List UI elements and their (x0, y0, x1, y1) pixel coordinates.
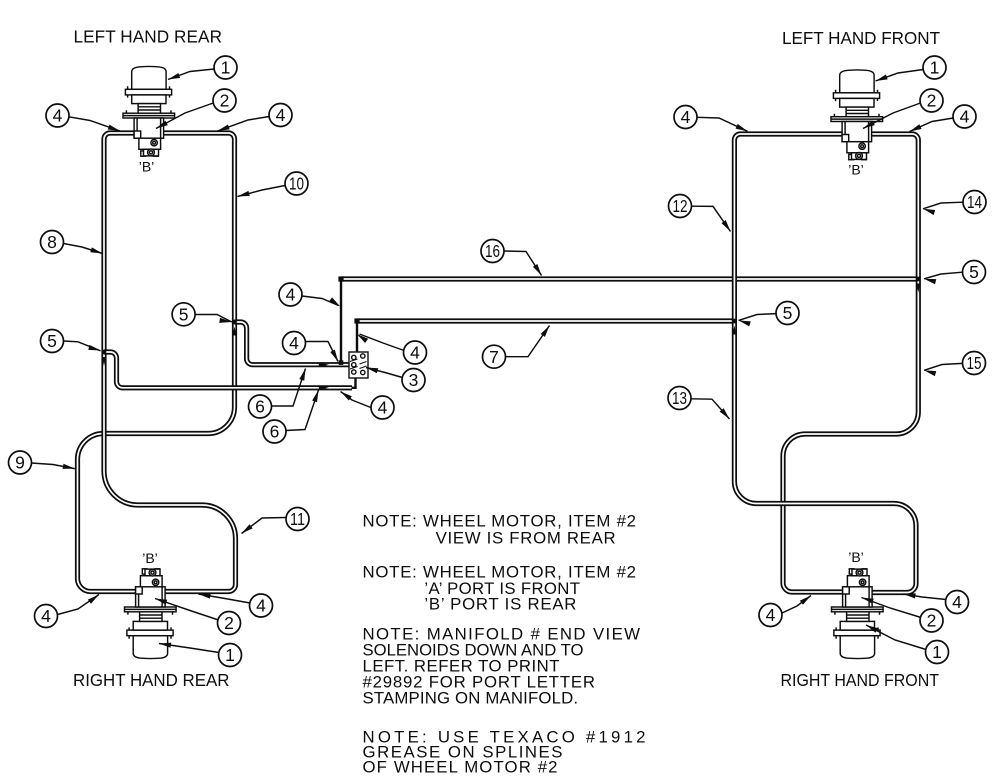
leader callout 6 lower (286, 390, 319, 431)
leader callout 2 RHR (155, 599, 219, 621)
callout 1 LHR (214, 56, 237, 79)
leader callout 4 RHR left (58, 595, 100, 615)
svg-text:1: 1 (930, 58, 940, 78)
hose 7 (long lower crossover hose) (357, 318, 734, 323)
svg-text:4: 4 (276, 105, 286, 125)
svg-text:4: 4 (766, 605, 776, 625)
callout 9 (9, 451, 32, 474)
tube from hose 16 corner down to manifold inlet (340, 280, 342, 363)
svg-text:6: 6 (270, 422, 280, 442)
leader callout 4 LHF left (697, 117, 748, 131)
leader callout 1 RHF (866, 625, 926, 650)
hose 10/9 (left loop right side around to right-rear motor) (78, 133, 235, 592)
svg-text:RIGHT HAND FRONT: RIGHT HAND FRONT (781, 670, 940, 690)
leader callout 4 RHR right (199, 594, 251, 603)
leader callout 4 at hose7 vertical (360, 334, 405, 351)
svg-text:4: 4 (256, 596, 266, 616)
leader callout 2 LHR (156, 103, 213, 129)
svg-text:2: 2 (220, 91, 230, 111)
svg-text:LEFT HAND FRONT: LEFT HAND FRONT (782, 28, 940, 48)
svg-text:4: 4 (41, 606, 51, 626)
callout 4 RHR right (250, 594, 273, 617)
svg-text:4: 4 (378, 398, 388, 418)
callout 2 RHF (920, 609, 943, 632)
junction B tick arrow (102, 357, 106, 366)
hose 14/15 (right loop right side down to right-front motor) (783, 134, 918, 592)
svg-text:RIGHT HAND REAR: RIGHT HAND REAR (73, 670, 230, 690)
callout 7 (483, 345, 506, 368)
svg-text:3: 3 (409, 370, 419, 390)
leader callout 4 LHR right (218, 117, 270, 132)
leader callout 4 RHF left (782, 596, 811, 614)
leader callout 2 LHF (863, 103, 921, 129)
leader callout 5 lower-left (64, 341, 101, 351)
leader callout 16 (504, 251, 542, 276)
svg-text:2: 2 (927, 91, 937, 111)
manifold item 3 (349, 352, 368, 378)
leader callout 1 LHF (876, 70, 924, 82)
callout 6 upper (249, 395, 272, 418)
svg-text:12: 12 (673, 196, 688, 216)
callout 14 (963, 191, 986, 214)
leader callout 10 (238, 186, 286, 197)
junction C (tee on right loop left side) (732, 319, 737, 324)
callout 5 mid-right (776, 302, 799, 325)
callout 4 RHF right (946, 591, 969, 614)
svg-text:8: 8 (47, 232, 57, 252)
svg-text:’B’ PORT IS REAR: ’B’ PORT IS REAR (424, 595, 576, 614)
svg-text:1: 1 (225, 645, 235, 665)
leader callout 3 (366, 368, 403, 378)
svg-text:LEFT HAND REAR: LEFT HAND REAR (74, 27, 223, 47)
callout 4 hose16 (279, 283, 302, 306)
svg-text:’B’: ’B’ (139, 159, 155, 175)
junction C tick arrow (732, 326, 736, 335)
svg-text:9: 9 (15, 453, 25, 473)
wheel motor U1 left hand rear (123, 66, 175, 156)
leader callout 4 at hose16 vertical (302, 296, 339, 306)
leader callout 7 (506, 326, 550, 357)
leader callout 6 upper (271, 369, 305, 407)
leader callout 12 (691, 206, 730, 231)
svg-text:4: 4 (952, 592, 962, 612)
svg-text:11: 11 (290, 509, 305, 529)
svg-text:6: 6 (255, 397, 265, 417)
svg-text:STAMPING ON MANIFOLD.: STAMPING ON MANIFOLD. (363, 689, 579, 708)
svg-text:’B’: ’B’ (848, 549, 864, 565)
svg-text:4: 4 (410, 343, 420, 363)
junction D (tee on right loop right side) (916, 277, 921, 282)
arrowheads (63, 73, 937, 648)
svg-text:5: 5 (783, 303, 793, 323)
callout 3 (402, 369, 425, 392)
callout 1 RHF (926, 641, 949, 664)
svg-text:’B’: ’B’ (848, 162, 864, 178)
leader callout 14 (923, 202, 963, 209)
svg-text:2: 2 (224, 613, 234, 633)
wheel motor U4 right hand front (inverted) (832, 569, 884, 659)
leader callout 15 (924, 363, 963, 370)
callout 5 upper-left (172, 303, 195, 326)
callout 11 (286, 508, 309, 531)
callout 2 RHR (218, 612, 241, 635)
leader callout 5 upper-left (195, 315, 232, 323)
callout 2 LHF (920, 89, 943, 112)
callout 4 LHF right (953, 105, 976, 128)
svg-text:10: 10 (289, 174, 304, 194)
callout 8 (41, 231, 64, 254)
callout circles (9, 56, 987, 667)
callout 4 LHF left (674, 106, 697, 129)
svg-text:15: 15 (967, 353, 982, 373)
junction at manifold inlet (hose 16 vertical end) (339, 360, 344, 365)
hose 16 (long top crossover hose) (341, 276, 918, 281)
wheel motor U2 left hand front (831, 70, 883, 160)
callout 4 RHR left (35, 605, 58, 628)
leader lines (32, 69, 964, 653)
junction B (tee on left loop left side) (102, 350, 107, 355)
leader callout 8 (64, 244, 103, 254)
corner dot hose 16 (338, 276, 343, 281)
leader callout 5 right (924, 272, 963, 279)
callout 15 (963, 352, 986, 375)
callout 4 upper manifold hose (283, 332, 306, 355)
callout 2 LHR (213, 89, 236, 112)
junction D tick arrow (916, 284, 920, 293)
hose 6 lower (junction B jog to manifold bottom port) (104, 352, 352, 388)
svg-text:13: 13 (672, 388, 687, 408)
svg-text:4: 4 (286, 285, 296, 305)
svg-text:16: 16 (485, 241, 500, 261)
svg-text:1: 1 (932, 642, 942, 662)
notes text block (363, 512, 646, 777)
leader callout 2 RHF (862, 598, 922, 618)
leader callout 13 (691, 399, 730, 419)
tube from hose 7 corner down to manifold top port (356, 322, 358, 354)
corner dot hose 7 (354, 318, 359, 323)
leader callout 4 LHF right (910, 118, 954, 132)
callout 4 LHR right (269, 104, 292, 127)
svg-text:VIEW IS FROM REAR: VIEW IS FROM REAR (436, 529, 616, 548)
hose 6 upper (junction A jog to manifold left port) (235, 322, 350, 365)
svg-text:OF WHEEL MOTOR #2: OF WHEEL MOTOR #2 (363, 758, 558, 777)
callout 16 (481, 240, 504, 263)
svg-text:’B’: ’B’ (142, 550, 158, 566)
callout 4 hose7 (404, 341, 427, 364)
leader callout 11 (242, 518, 287, 534)
hose 8/11 (left loop left side, S-curve to right-rear motor) (104, 133, 236, 592)
svg-text:1: 1 (221, 58, 231, 78)
callout 5 lower-left (41, 330, 64, 353)
junction A (tee on left loop right side) (232, 320, 237, 325)
svg-text:4: 4 (289, 333, 299, 353)
callout 1 RHR (219, 644, 242, 667)
callout 6 lower (263, 420, 286, 443)
leader callout 9 (32, 463, 75, 469)
callout 4 lower manifold hose (371, 396, 394, 419)
svg-text:5: 5 (179, 305, 189, 325)
tube from hose 6 lower end up to manifold bottom port (352, 378, 356, 388)
leader callout 4 at upper manifold hose (306, 342, 339, 362)
callout 13 (668, 387, 691, 410)
leader callout 5 mid-right (739, 314, 777, 321)
wheel motor U3 right hand rear (inverted) (125, 569, 177, 659)
hose 12/13 (right loop left side down to right-front motor) (734, 134, 916, 593)
svg-text:7: 7 (489, 347, 499, 367)
leader callout 1 LHR (168, 69, 214, 80)
callout 10 (285, 172, 308, 195)
callout 1 LHF (923, 56, 946, 79)
leader callout 4 LHR left (69, 117, 120, 131)
callout numbers (15, 58, 982, 666)
callout 4 LHR left (46, 104, 69, 127)
junction A tick arrow (233, 327, 237, 336)
callout 12 (669, 195, 692, 218)
callout 5 right (963, 261, 986, 284)
svg-text:5: 5 (47, 331, 57, 351)
leader callout 4 RHF right (904, 594, 947, 600)
leader callout 1 RHR (159, 644, 219, 653)
callout 4 RHF left (759, 604, 782, 627)
svg-text:2: 2 (927, 611, 937, 631)
svg-text:14: 14 (967, 192, 982, 212)
svg-text:4: 4 (960, 107, 970, 127)
hose end arrows near manifold (319, 362, 329, 366)
svg-text:5: 5 (969, 262, 979, 282)
svg-text:4: 4 (681, 107, 691, 127)
svg-text:4: 4 (53, 106, 63, 126)
leader callout 4 at lower manifold hose (341, 392, 373, 409)
